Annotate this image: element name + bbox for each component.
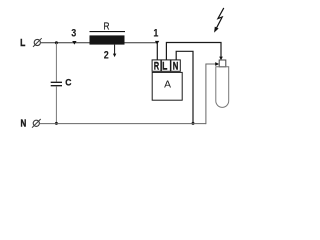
- svg-text:C: C: [65, 77, 71, 88]
- lamp shell branch up: [206, 64, 217, 124]
- bottom wire N to lamp branch: [40, 123, 206, 125]
- capacitor upper lead: [55, 43, 57, 82]
- arrowhead onto lamp cap top: [219, 57, 223, 61]
- arrowhead onto lamp cap side: [215, 62, 219, 66]
- svg-text:2: 2: [104, 50, 109, 62]
- ignitor body box A: [152, 72, 182, 100]
- junction dot capacitor / bottom wire: [55, 122, 58, 125]
- lamp tube: [216, 67, 229, 108]
- terminal L (phase input): [33, 38, 42, 47]
- wire ignitor N terminal up right and down to bottom wire: [176, 51, 193, 123]
- lightning bolt (ignition pulse): [214, 8, 224, 33]
- node 1 marker: [155, 41, 159, 45]
- junction dot N wire / bottom wire: [192, 122, 195, 125]
- capacitor C plates: [51, 81, 62, 83]
- capacitor lower lead: [55, 86, 57, 123]
- wire resistor to node 1: [125, 42, 158, 44]
- resistor R (ballast) top line: [90, 31, 126, 33]
- lamp cap: [219, 60, 226, 67]
- svg-text:A: A: [164, 79, 171, 90]
- svg-text:L: L: [162, 60, 168, 72]
- node 2 arrow: [113, 45, 116, 58]
- svg-text:R: R: [154, 60, 159, 72]
- svg-text:R: R: [104, 22, 110, 33]
- svg-text:N: N: [173, 60, 179, 72]
- svg-text:1: 1: [153, 28, 158, 40]
- wire node 1 down to ignitor R terminal: [156, 42, 158, 60]
- junction dot capacitor / top wire: [55, 41, 58, 44]
- svg-text:L: L: [20, 38, 25, 49]
- ignitor terminal box L: [161, 60, 170, 71]
- svg-text:3: 3: [71, 28, 76, 40]
- wire ignitor L terminal up and right to lamp: [166, 43, 221, 61]
- node 3 marker: [72, 41, 76, 45]
- terminal N (neutral input): [32, 119, 41, 128]
- ignitor terminal box N: [171, 60, 180, 71]
- ignitor terminal box R: [152, 60, 161, 71]
- wire L to resistor: [41, 42, 90, 44]
- resistor R body: [90, 35, 125, 44]
- svg-text:N: N: [21, 118, 27, 129]
